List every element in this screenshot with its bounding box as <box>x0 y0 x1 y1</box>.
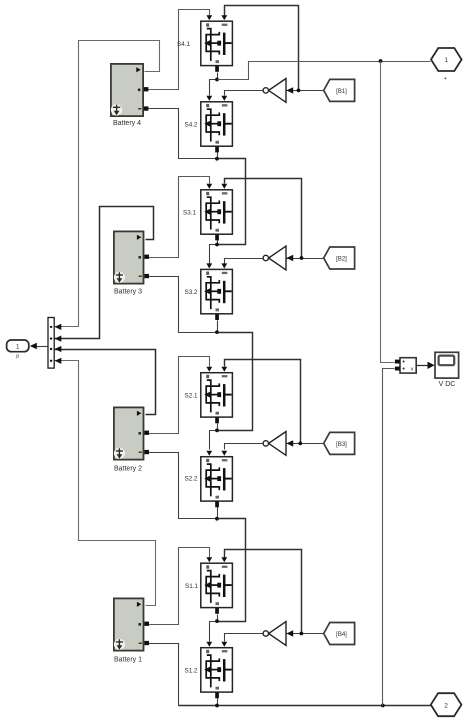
wire NOT1 output to S4.2 gate <box>225 91 263 96</box>
svg-text:S3.2: S3.2 <box>185 289 198 296</box>
wire mux output to port p <box>37 346 49 348</box>
arrowhead mux input1 <box>55 324 62 330</box>
node bottom Vminus <box>381 704 385 708</box>
svg-text:Battery 3: Battery 3 <box>114 288 142 295</box>
wire S1.2 source stub <box>217 699 219 706</box>
mosfet S3.1 <box>201 184 233 241</box>
arrowhead mux output <box>30 343 37 349</box>
battery Battery1 <box>114 598 149 650</box>
node bottom S1.2 <box>215 704 219 708</box>
node midpoint 2 <box>215 429 219 433</box>
svg-text:S3.1: S3.1 <box>183 209 196 216</box>
wire voltmeter to display <box>417 365 428 367</box>
svg-text:Battery 2: Battery 2 <box>114 465 142 472</box>
wire section2 source to section1 midpoint <box>218 519 246 622</box>
svg-text:[B4]: [B4] <box>336 632 347 638</box>
svg-text:S2.1: S2.1 <box>185 393 198 400</box>
not-gate U3 <box>263 432 286 456</box>
wire B1 tag to junction <box>287 90 324 92</box>
wire battery1 minus to bottom rail <box>146 644 179 706</box>
mosfet S4.1 <box>201 15 233 72</box>
svg-text:1: 1 <box>444 57 448 64</box>
wire battery2 m to mux input3 <box>55 350 156 415</box>
not-gate U4 <box>263 622 286 646</box>
wire battery3 m to mux input2 <box>55 207 154 339</box>
mosfet S4.2 <box>201 96 233 153</box>
port p oval <box>7 340 29 360</box>
arrowhead NOT1 input <box>286 87 293 93</box>
node port1 branch <box>379 59 383 63</box>
wire midpoint4 to port1 <box>218 62 431 80</box>
wire voltmeter minus to bottom rail <box>383 369 395 706</box>
wire S2.2 source node to battery2 minus <box>146 453 218 519</box>
node midpoint 1 <box>215 619 219 623</box>
arrowhead NOT2 input <box>286 255 293 261</box>
wire S4.2 source node to battery4 minus <box>146 109 218 159</box>
node midpoint 3 <box>215 243 219 247</box>
svg-text:v: v <box>411 367 414 373</box>
svg-text:S2.2: S2.2 <box>185 476 198 483</box>
battery Battery2 <box>114 407 149 459</box>
svg-text:Battery 1: Battery 1 <box>114 656 142 663</box>
tag B4 <box>324 623 355 645</box>
arrowhead NOT3 input <box>286 440 293 446</box>
node source 4 <box>215 157 219 161</box>
wire section3 source to section2 midpoint <box>218 333 253 431</box>
node midpoint 4 <box>215 78 219 82</box>
tag B3 <box>324 432 355 454</box>
arrowhead mux input3 <box>55 346 62 352</box>
node gate junction 4 <box>300 632 304 636</box>
wire S3.1 source to midpoint <box>210 241 218 264</box>
hex port 2 <box>431 693 462 716</box>
wire B2 tag to junction <box>287 258 324 260</box>
svg-text:[B1]: [B1] <box>336 89 347 95</box>
wire B2 gate feed to S3.1 <box>225 179 302 259</box>
wire S1.1 source to midpoint <box>210 615 218 642</box>
wire battery2 plus to S2.1 drain <box>146 357 210 434</box>
svg-text:2: 2 <box>444 702 448 709</box>
wire NOT4 output to S1.2 gate <box>225 634 263 642</box>
not-gate U1 <box>263 79 286 103</box>
not-gate U2 <box>263 246 286 270</box>
hex port 1 <box>431 48 462 71</box>
node source 2 <box>215 517 219 521</box>
wire battery1 m to mux input4 <box>55 361 156 606</box>
tag B2 <box>324 247 355 269</box>
wire S2.1 source to midpoint <box>210 424 218 450</box>
node gate junction 1 <box>297 89 301 93</box>
wire B4 gate feed to S1.1 <box>225 550 302 634</box>
svg-text:V DC: V DC <box>439 381 456 388</box>
battery Battery3 <box>114 231 149 283</box>
svg-text:+: + <box>444 76 447 82</box>
wire NOT3 output to S2.2 gate <box>225 444 263 450</box>
wire B4 tag to junction <box>287 633 324 635</box>
svg-text:Battery 4: Battery 4 <box>113 120 141 127</box>
arrowhead NOT4 input <box>286 630 293 636</box>
wire battery4 plus to S4.1 drain <box>146 10 210 90</box>
battery Battery4 <box>111 64 148 116</box>
arrowhead mux input4 <box>55 358 62 364</box>
wire S3.2 source node to battery3 minus <box>146 277 218 333</box>
voltmeter block <box>395 358 416 373</box>
tag B1 <box>324 79 355 101</box>
wire section4 source to section3 midpoint <box>218 159 246 245</box>
mosfet S2.1 <box>201 367 233 424</box>
svg-text:[B2]: [B2] <box>336 256 347 262</box>
wire battery1 plus to S1.1 drain <box>146 548 210 625</box>
svg-text:S4.1: S4.1 <box>177 41 190 48</box>
display V DC <box>435 352 459 378</box>
node gate junction 3 <box>298 442 302 446</box>
mosfet S2.2 <box>201 451 233 508</box>
node source 3 <box>215 330 219 334</box>
svg-text:S1.1: S1.1 <box>185 583 198 590</box>
svg-text:p: p <box>16 354 19 360</box>
mux selector bar <box>48 318 54 369</box>
wire B1 gate feed to S4.1 <box>225 6 299 91</box>
node gate junction 2 <box>300 256 304 260</box>
wire S4.1 source to midpoint <box>210 73 218 96</box>
wire B3 gate feed to S2.1 <box>225 360 301 444</box>
wire bottom rail to port2 <box>179 705 431 707</box>
svg-text:S4.2: S4.2 <box>185 121 198 128</box>
wire battery3 plus to S3.1 drain <box>146 177 210 258</box>
mosfet S1.1 <box>201 557 233 614</box>
svg-text:S1.2: S1.2 <box>185 668 198 675</box>
wire port1 node to voltmeter plus <box>381 62 395 363</box>
mosfet S1.2 <box>201 642 233 699</box>
wire B3 tag to junction <box>287 443 324 445</box>
svg-text:1: 1 <box>16 344 20 351</box>
mosfet S3.2 <box>201 263 233 320</box>
wire battery4 m to mux input1 <box>55 41 160 327</box>
wire NOT2 output to S3.2 gate <box>225 259 263 264</box>
arrowhead display input <box>428 362 435 369</box>
svg-text:[B3]: [B3] <box>336 442 347 448</box>
arrowhead mux input2 <box>55 336 62 342</box>
